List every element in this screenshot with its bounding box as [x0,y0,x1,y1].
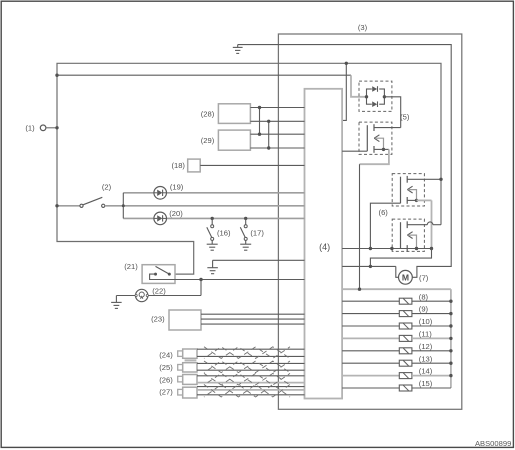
svg-text:(7): (7) [419,274,429,283]
svg-text:(26): (26) [159,375,173,384]
svg-text:(1): (1) [25,124,35,133]
svg-text:(27): (27) [159,388,173,397]
svg-text:(20): (20) [169,209,183,218]
svg-text:(18): (18) [171,161,185,170]
svg-text:(12): (12) [419,342,433,351]
svg-text:(28): (28) [201,110,215,119]
svg-text:(5): (5) [400,112,410,121]
svg-text:(16): (16) [217,228,231,237]
svg-text:(17): (17) [250,228,264,237]
svg-text:(19): (19) [170,183,184,192]
svg-text:(11): (11) [419,330,432,339]
svg-text:(23): (23) [151,315,165,324]
svg-text:(22): (22) [152,287,166,296]
svg-text:(3): (3) [358,23,368,32]
svg-text:M: M [402,272,409,282]
svg-text:(25): (25) [159,363,173,372]
svg-text:(14): (14) [419,367,433,376]
svg-text:ABS00899: ABS00899 [475,439,511,448]
svg-text:(15): (15) [419,379,433,388]
svg-text:(10): (10) [419,317,433,326]
svg-text:(9): (9) [419,305,429,314]
svg-text:(2): (2) [102,182,112,191]
svg-text:(4): (4) [319,242,330,252]
svg-text:(13): (13) [419,354,433,363]
svg-text:(8): (8) [419,292,429,301]
svg-text:(24): (24) [159,351,173,360]
svg-text:(21): (21) [124,262,138,271]
svg-text:(29): (29) [201,136,215,145]
svg-text:(6): (6) [379,208,389,217]
